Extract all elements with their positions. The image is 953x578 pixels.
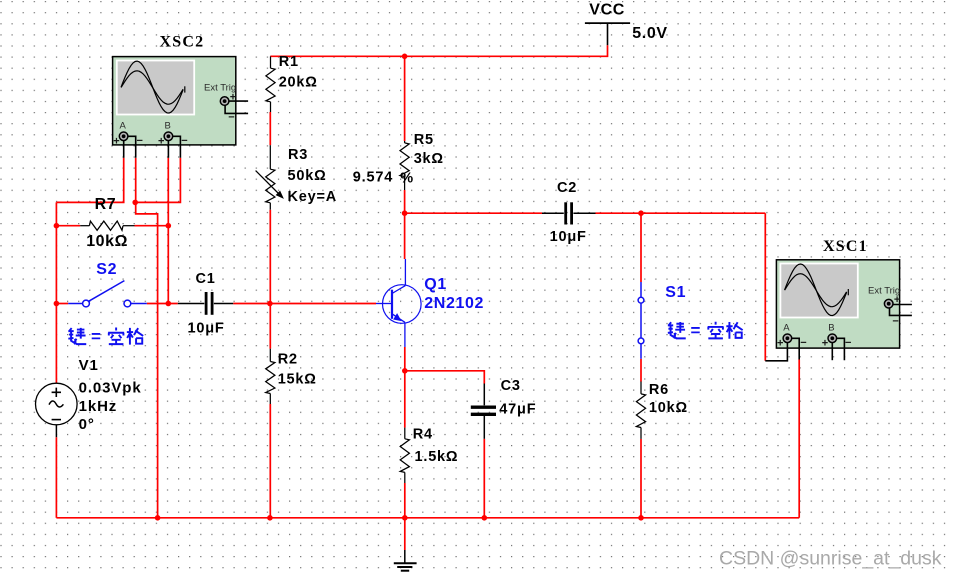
node C2/S1 branch junction xyxy=(638,210,644,216)
capacitor C1 xyxy=(178,292,233,315)
svg-text:15kΩ: 15kΩ xyxy=(278,372,317,388)
svg-text:9.574: 9.574 xyxy=(353,170,393,186)
capacitor C3 xyxy=(471,384,496,439)
svg-text:10kΩ: 10kΩ xyxy=(86,233,128,250)
wire XSC2 A+ down-left xyxy=(56,158,123,203)
svg-text:−: − xyxy=(800,337,806,349)
svg-text:CSDN @sunrise_at_dusk: CSDN @sunrise_at_dusk xyxy=(719,547,942,569)
wire C2 row right segment to XSC1 branch xyxy=(596,212,766,214)
XSC1 lead ExtTrig- xyxy=(890,308,912,315)
XSC1 terminal Ext Trig xyxy=(884,299,893,308)
node ground-rail/R2 junction xyxy=(267,515,273,521)
wire XSC2 A- down xyxy=(135,158,137,203)
svg-text:−: − xyxy=(892,316,898,328)
wire top rail R1 to VCC xyxy=(270,55,607,57)
svg-text:3kΩ: 3kΩ xyxy=(414,151,444,167)
key legend S1 (jian = kongge) xyxy=(668,321,743,340)
R3 wiper arrowhead xyxy=(276,191,284,199)
wire scope ground drop to bottom rail xyxy=(136,202,158,517)
resistor R1 xyxy=(266,56,275,112)
node ground-rail/R4/ground junction xyxy=(402,515,408,521)
svg-text:47μF: 47μF xyxy=(499,402,536,418)
wire S2 right to C1 xyxy=(147,303,178,305)
svg-text:−: − xyxy=(845,337,851,349)
wire R3 bottom to base node xyxy=(269,210,271,349)
svg-text:C1: C1 xyxy=(196,271,216,287)
XSC2 lead B- xyxy=(173,136,181,158)
XSC2 terminal A xyxy=(119,132,128,141)
key legend S2 (jian = kongge) xyxy=(68,327,143,346)
svg-text:R6: R6 xyxy=(649,382,669,398)
oscilloscope XSC2 xyxy=(113,57,237,148)
resistor R5 xyxy=(400,141,409,190)
node R7/B+ junction xyxy=(166,223,172,229)
resistor R2 xyxy=(266,349,275,404)
wire R7 left feed xyxy=(56,225,80,227)
svg-text:5.0V: 5.0V xyxy=(632,25,667,42)
wire R7 right to B+ column xyxy=(135,225,169,227)
switch S1 closed xyxy=(638,282,644,359)
transistor Q1 xyxy=(376,259,421,347)
resistor R7 horizontal xyxy=(80,221,134,230)
svg-text:R2: R2 xyxy=(278,351,298,367)
svg-text:2N2102: 2N2102 xyxy=(424,295,484,312)
XSC1 lead ExtTrig+ xyxy=(893,304,912,306)
wire R6 bottom to ground rail xyxy=(640,439,642,518)
svg-text:−: − xyxy=(181,135,187,147)
svg-text:50kΩ: 50kΩ xyxy=(288,168,327,184)
wire C2 node to collector (red part) xyxy=(404,213,406,259)
wire bottom ground rail xyxy=(56,517,799,519)
XSC2 terminal Ext Trig xyxy=(220,97,229,106)
svg-text:XSC2: XSC2 xyxy=(160,34,205,51)
Q1 emitter arrowhead xyxy=(393,313,401,321)
wire R1 bottom to R3 top xyxy=(269,112,271,145)
XSC1 lead B- xyxy=(837,338,845,360)
node ground-rail/scope-gnd junction xyxy=(155,515,161,521)
oscilloscope XSC1 xyxy=(776,260,900,350)
XSC2 lead B+ xyxy=(167,141,169,158)
svg-text:A: A xyxy=(120,121,127,132)
svg-text:20kΩ: 20kΩ xyxy=(279,75,318,91)
node ground-rail/C3 junction xyxy=(482,515,488,521)
svg-text:R1: R1 xyxy=(279,54,299,70)
wire ground stem xyxy=(404,518,406,550)
wire C3 bottom to ground rail xyxy=(483,439,485,518)
wire V1 bottom to ground rail xyxy=(55,437,57,518)
svg-text:R5: R5 xyxy=(414,132,434,148)
wire base node to Q1 base xyxy=(270,303,376,305)
XSC1 lead A+ xyxy=(765,343,787,361)
XSC1 terminal B xyxy=(828,334,837,343)
node B+/C1 junction xyxy=(166,301,172,307)
svg-text:C3: C3 xyxy=(501,378,521,394)
svg-text:R7: R7 xyxy=(95,196,117,213)
svg-text:S1: S1 xyxy=(665,284,686,301)
wire left rail xyxy=(55,202,57,386)
svg-text:B: B xyxy=(165,121,171,132)
wire R4 bottom to ground rail xyxy=(404,483,406,518)
svg-text:VCC: VCC xyxy=(589,1,625,18)
capacitor C2 xyxy=(542,202,596,224)
resistor R3 potentiometer xyxy=(256,145,281,210)
node scope A-/B- junction xyxy=(132,200,138,206)
node left-rail/S2/V1 junction xyxy=(54,301,60,307)
svg-text:10μF: 10μF xyxy=(550,229,587,245)
wire XSC2 B+ down to R7/C1 node xyxy=(167,158,169,304)
svg-text:B: B xyxy=(828,323,834,334)
power VCC xyxy=(585,23,630,45)
node ground-rail/R6 junction xyxy=(638,515,644,521)
node left-rail/R7 junction xyxy=(54,223,60,229)
wire C2 row left segment xyxy=(405,212,542,214)
svg-text:C2: C2 xyxy=(557,180,577,196)
XSC1 lead A- xyxy=(792,338,800,359)
svg-text:A: A xyxy=(783,323,790,334)
svg-text:=: = xyxy=(91,327,101,346)
svg-text:10kΩ: 10kΩ xyxy=(649,400,688,416)
svg-text:Q1: Q1 xyxy=(424,276,447,293)
svg-text:0°: 0° xyxy=(79,416,95,433)
wire collector rail upper (top rail to R5) xyxy=(404,56,406,141)
svg-text:0.03Vpk: 0.03Vpk xyxy=(79,380,142,397)
svg-text:1.5kΩ: 1.5kΩ xyxy=(415,449,459,465)
XSC2 lead A+ xyxy=(123,141,125,158)
svg-text:S2: S2 xyxy=(96,261,117,278)
wire VCC stem red part xyxy=(607,45,609,57)
svg-text:Key=A: Key=A xyxy=(288,189,338,205)
svg-text:R4: R4 xyxy=(413,427,433,443)
wire XSC1 A- vertical xyxy=(798,360,800,518)
wire C1 right to base node xyxy=(233,303,270,305)
svg-text:V1: V1 xyxy=(79,357,99,374)
XSC1 lead B+ xyxy=(831,343,833,360)
wire S1 bottom to R6 xyxy=(640,359,642,382)
svg-text:XSC1: XSC1 xyxy=(823,238,868,255)
wire R5 bottom to C2 node xyxy=(404,190,406,213)
node base/C1/R3/R2 junction xyxy=(267,301,273,307)
source V1 xyxy=(36,383,78,437)
wire XSC2 B- down and left to A- xyxy=(136,158,181,203)
node C2/collector/S1 junction xyxy=(402,210,408,216)
wire emitter red part xyxy=(404,347,406,428)
svg-text:1kHz: 1kHz xyxy=(79,398,118,415)
wire S1 top feed xyxy=(640,213,642,282)
XSC2 lead ExtTrig+ xyxy=(229,100,248,102)
switch S2 xyxy=(68,281,147,307)
svg-text:%: % xyxy=(400,170,414,186)
resistor R6 xyxy=(636,382,645,439)
XSC1 terminal A xyxy=(783,334,792,343)
node top-rail/R5 junction xyxy=(402,54,408,60)
ground xyxy=(394,550,417,571)
XSC2 terminal B xyxy=(164,132,173,141)
svg-text:R3: R3 xyxy=(288,147,308,163)
wire emitter node to C3 branch xyxy=(405,371,485,384)
node emitter/R4/C3 junction xyxy=(402,368,408,374)
svg-text:10μF: 10μF xyxy=(188,321,225,337)
resistor R4 xyxy=(400,428,409,483)
wire R2 bottom to ground rail xyxy=(269,404,271,518)
svg-text:+: + xyxy=(822,338,828,350)
XSC2 lead A- xyxy=(128,136,136,158)
wire XSC1 A+ vertical xyxy=(764,213,766,361)
wire S2 left feed xyxy=(56,303,68,305)
svg-text:−: − xyxy=(137,135,143,147)
XSC2 lead ExtTrig- xyxy=(225,106,248,114)
